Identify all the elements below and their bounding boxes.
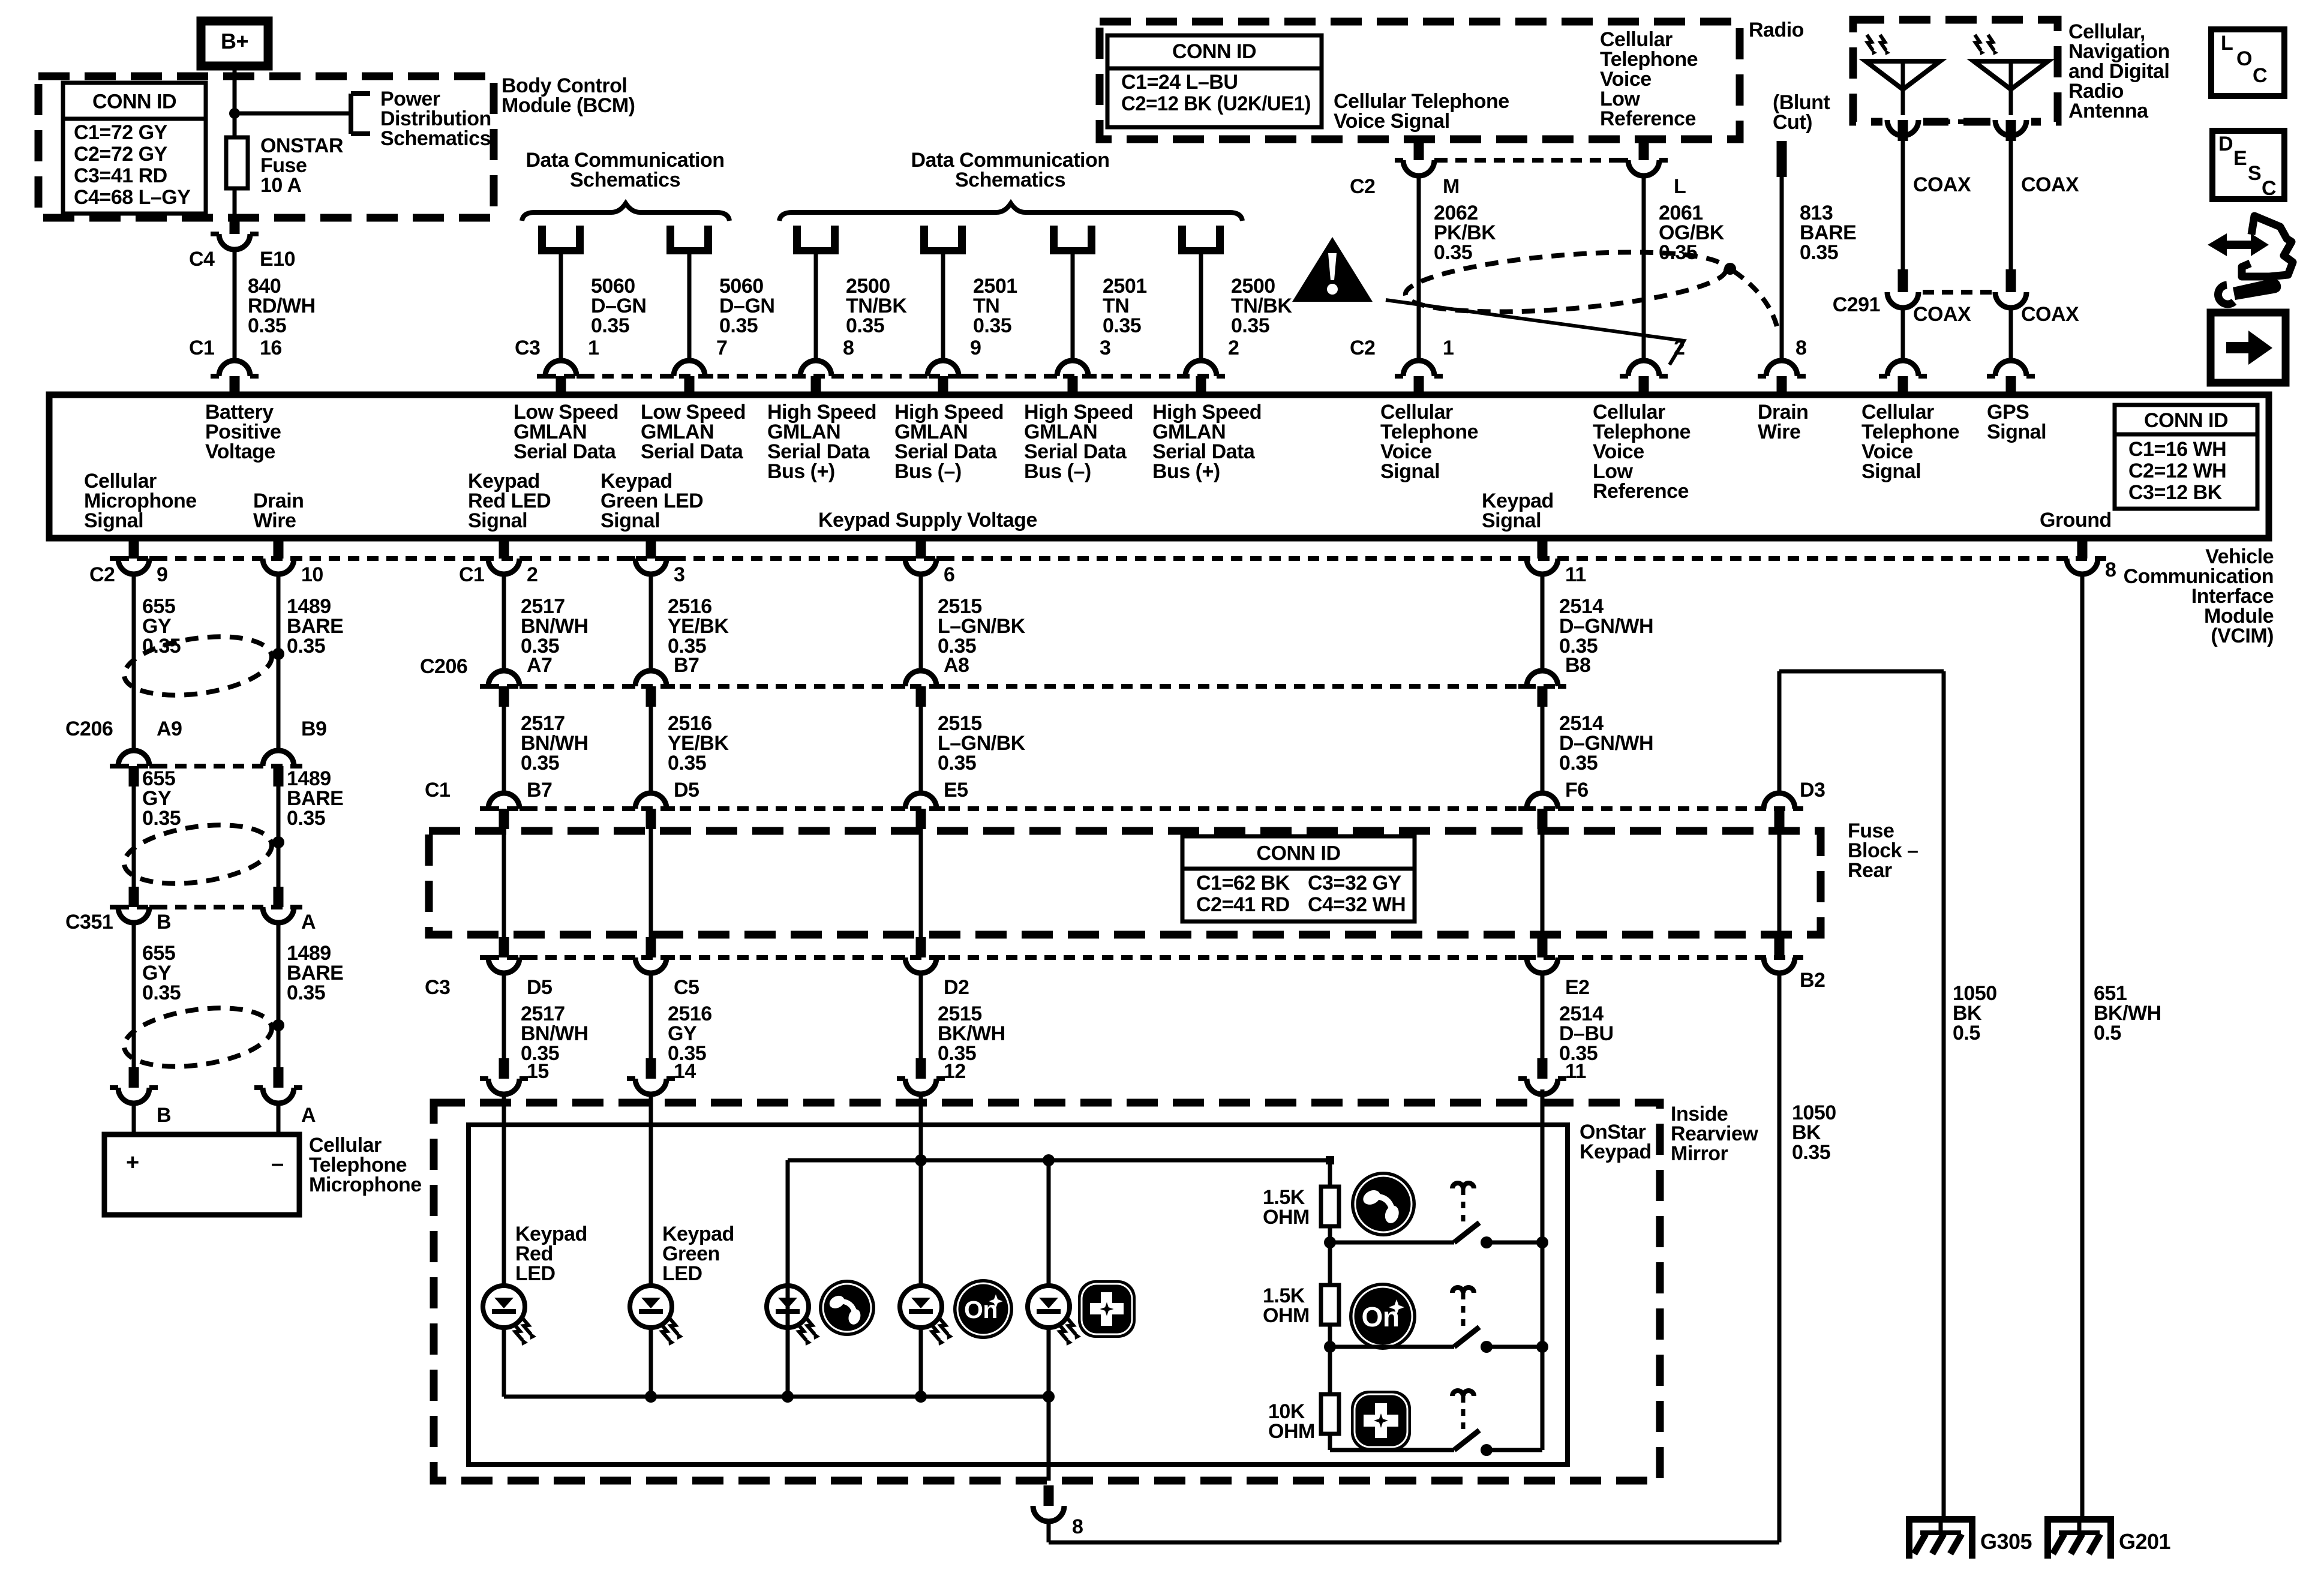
wire segment to keypad [1541, 973, 1545, 1058]
svg-text:A7: A7 [527, 654, 552, 677]
LED wires lower segments [502, 1328, 506, 1397]
svg-text:E5: E5 [944, 779, 968, 801]
switch row at y2245 [1330, 1345, 1454, 1349]
svg-text:B7: B7 [674, 654, 699, 677]
VCIM bottom pin 3 [646, 538, 656, 559]
svg-text:A: A [301, 911, 316, 933]
svg-text:C2: C2 [89, 563, 115, 586]
ground G305 [1939, 1516, 1943, 1533]
svg-text:Rear: Rear [1848, 859, 1892, 882]
svg-text:14: 14 [674, 1060, 696, 1083]
CONN ID table VCIM [2115, 405, 2257, 509]
onstar key icon [953, 1279, 1013, 1339]
svg-text:D5: D5 [674, 779, 699, 801]
svg-text:L: L [2221, 32, 2233, 55]
phone key icon [819, 1280, 875, 1336]
svg-text:10 A: 10 A [260, 174, 302, 197]
VCIM bottom pin 11 [1538, 538, 1548, 559]
svg-text:E2: E2 [1565, 976, 1590, 999]
svg-text:C1=62 BK: C1=62 BK [1196, 872, 1290, 894]
wire B+ to junction [233, 66, 237, 115]
svg-text:(VCIM): (VCIM) [2211, 625, 2274, 647]
svg-text:6: 6 [944, 563, 954, 586]
CONN ID table BCM [63, 83, 206, 214]
svg-text:C2=12 BK (U2K/UE1): C2=12 BK (U2K/UE1) [1121, 92, 1311, 115]
svg-text:COAX: COAX [1913, 173, 1971, 196]
svg-text:C1: C1 [189, 337, 214, 359]
data wire pin 8 [793, 226, 801, 254]
svg-text:0.35: 0.35 [973, 314, 1011, 337]
phone key icon large [1351, 1172, 1416, 1236]
CONN ID table radio [1107, 35, 1322, 127]
wire junction to power distribution bracket [235, 112, 351, 116]
svg-text:Schematics: Schematics [380, 127, 491, 150]
ground return wire to B2 column [1049, 1541, 1779, 1545]
diagnostic wrench icon [2242, 216, 2293, 277]
svg-text:CONN ID: CONN ID [1256, 842, 1340, 865]
svg-text:11: 11 [1565, 1060, 1586, 1083]
data wire pin 7 [666, 226, 674, 254]
svg-text:COAX: COAX [2021, 173, 2079, 196]
svg-text:D2: D2 [944, 976, 969, 999]
svg-text:8: 8 [2105, 559, 2116, 581]
svg-text:B: B [157, 911, 171, 933]
svg-text:Reference: Reference [1600, 107, 1696, 130]
antenna lead connector [1990, 115, 2031, 128]
svg-text:8: 8 [1795, 337, 1806, 359]
keypad circuit wire x1535 upper segment [919, 574, 923, 671]
wire inside fuse block [919, 829, 923, 937]
svg-text:COAX: COAX [1913, 303, 1971, 326]
svg-text:8: 8 [843, 337, 854, 359]
warning triangle [1292, 237, 1373, 302]
connector C3 pin D2 fuse block bottom [916, 937, 926, 957]
svg-text:Microphone: Microphone [309, 1173, 422, 1196]
svg-text:B7: B7 [527, 779, 552, 801]
svg-text:G305: G305 [1980, 1529, 2032, 1554]
svg-text:LED: LED [662, 1262, 702, 1285]
keypad circuit wire x840 upper segment [502, 574, 506, 671]
switch row at y2417 [1330, 1448, 1454, 1452]
connector C291 gps side [2006, 269, 2016, 292]
B+ battery feed symbol [201, 21, 268, 66]
svg-text:2: 2 [1228, 337, 1239, 359]
svg-text:C1: C1 [459, 563, 484, 586]
onstar keypad solid box [469, 1125, 1568, 1464]
resistor R1 1.5K [1321, 1187, 1339, 1226]
svg-text:Signal: Signal [84, 509, 143, 532]
svg-text:C351: C351 [65, 911, 113, 933]
svg-text:15: 15 [527, 1060, 549, 1083]
dashed connector line C3 row [545, 374, 1218, 379]
svg-text:0.5: 0.5 [1953, 1022, 1980, 1044]
svg-text:0.35: 0.35 [591, 314, 629, 337]
wire to G305 upper run [1779, 670, 1944, 674]
svg-text:B2: B2 [1800, 969, 1825, 992]
svg-text:S: S [2248, 162, 2261, 185]
VCIM bottom pin 10 [274, 538, 284, 559]
svg-text:Antenna: Antenna [2068, 100, 2149, 122]
LOC box icon [2211, 29, 2284, 96]
svg-text:8: 8 [1072, 1515, 1083, 1538]
svg-text:O: O [2236, 47, 2252, 70]
svg-text:C291: C291 [1833, 293, 1880, 316]
wire 655 GY segment 3 [132, 923, 136, 1067]
wire segment to fuse block [502, 707, 506, 793]
ground G201 [2077, 1516, 2082, 1533]
svg-text:CONN ID: CONN ID [92, 91, 176, 113]
VCIM bottom pin 8 [2077, 538, 2088, 559]
shield ellipse 2 [121, 816, 275, 892]
svg-text:0.35: 0.35 [1559, 752, 1598, 775]
wire segment to fuse block [1541, 707, 1545, 793]
svg-text:L: L [1674, 175, 1686, 198]
svg-text:E10: E10 [260, 248, 295, 271]
BCM dashed box [38, 76, 494, 218]
svg-text:OHM: OHM [1263, 1304, 1310, 1327]
svg-text:C1=24 L–BU: C1=24 L–BU [1121, 71, 1238, 94]
VCIM bottom pin 6 [916, 538, 926, 559]
svg-text:A: A [301, 1104, 316, 1127]
wire 840 RD/WH [233, 250, 237, 361]
svg-text:C206: C206 [65, 718, 113, 740]
phone LED symbol [767, 1286, 809, 1328]
antenna dashed box [1853, 20, 2058, 122]
svg-text:C206: C206 [420, 655, 467, 678]
svg-text:CONN ID: CONN ID [2144, 409, 2228, 432]
svg-text:D3: D3 [1800, 779, 1825, 801]
leader line [1386, 300, 1684, 365]
microphone connector pins B A [129, 1067, 139, 1088]
CONN ID table fuse block [1182, 836, 1415, 921]
svg-text:Serial Data: Serial Data [514, 440, 617, 463]
svg-text:Signal: Signal [468, 509, 527, 532]
VCIM module box [49, 395, 2269, 538]
svg-text:C1=72 GY: C1=72 GY [74, 121, 168, 144]
svg-text:Bus (–): Bus (–) [1024, 460, 1091, 483]
svg-text:9: 9 [157, 563, 167, 586]
onstar LED symbol [900, 1286, 942, 1328]
LED cathode bus [504, 1395, 1049, 1399]
svg-text:Radio: Radio [1749, 19, 1804, 41]
connector C3 pin D5 fuse block bottom [499, 937, 509, 957]
keypad circuit wire x1085 upper segment [649, 574, 653, 671]
svg-text:D: D [2218, 133, 2233, 155]
radio voice low reference wire 2061 OG/BK [1639, 139, 1649, 160]
coax wire [1901, 137, 1905, 269]
wire segment to keypad [502, 973, 506, 1058]
svg-text:0.35: 0.35 [1800, 241, 1838, 264]
connector C291 [1898, 269, 1908, 292]
wire 1489 BARE segment 1 [277, 574, 281, 751]
cellular antenna symbol [1866, 61, 1940, 89]
svg-text:0.35: 0.35 [248, 314, 286, 337]
connector C4 pin E10 of BCM [230, 218, 240, 234]
radio voice signal wire 2062 PK/BK [1414, 139, 1424, 160]
svg-text:0.35: 0.35 [1434, 241, 1472, 264]
svg-text:7: 7 [716, 337, 727, 359]
svg-text:C1=16 WH: C1=16 WH [2128, 438, 2226, 461]
wire 1489 BARE segment 2 [277, 786, 281, 887]
svg-text:0.35: 0.35 [287, 981, 325, 1004]
svg-text:Keypad Supply Voltage: Keypad Supply Voltage [818, 509, 1037, 532]
svg-text:Voltage: Voltage [205, 440, 275, 463]
shield ellipse 1 [121, 628, 275, 704]
svg-text:0.35: 0.35 [1792, 1141, 1830, 1164]
svg-text:0.5: 0.5 [2094, 1022, 2121, 1044]
data communication schematics brace right [779, 203, 1242, 221]
svg-text:B9: B9 [301, 718, 326, 740]
svg-text:16: 16 [260, 337, 282, 359]
svg-text:0.35: 0.35 [719, 314, 758, 337]
svg-text:Bus (+): Bus (+) [1152, 460, 1220, 483]
svg-text:C2=72 GY: C2=72 GY [74, 143, 168, 166]
svg-text:C3: C3 [425, 976, 450, 999]
svg-text:Signal: Signal [1482, 509, 1541, 532]
svg-text:Signal: Signal [600, 509, 660, 532]
connector C3 pin C5 fuse block bottom [646, 937, 656, 957]
svg-text:Signal: Signal [1380, 460, 1440, 483]
svg-text:0.35: 0.35 [287, 635, 325, 658]
svg-text:0.35: 0.35 [521, 752, 559, 775]
svg-text:B8: B8 [1565, 654, 1590, 677]
emergency LED symbol [1028, 1286, 1070, 1328]
svg-text:C3=12 BK: C3=12 BK [2128, 481, 2223, 504]
keypad signal vertical [1541, 1089, 1545, 1450]
Radio dashed box [1100, 22, 1740, 139]
svg-text:3: 3 [1100, 337, 1110, 359]
svg-text:Schematics: Schematics [570, 169, 680, 191]
svg-text:0.35: 0.35 [142, 981, 181, 1004]
svg-text:1: 1 [588, 337, 599, 359]
fuse ONSTAR 10A [233, 113, 237, 137]
resistor R2 1.5K [1321, 1285, 1339, 1325]
dashed connector line radio C2 row [1436, 158, 1627, 163]
twisted pair shield ellipse radio wires [1403, 242, 1728, 322]
svg-text:A9: A9 [157, 718, 182, 740]
svg-text:LED: LED [515, 1262, 556, 1285]
svg-text:Serial Data: Serial Data [641, 440, 744, 463]
coax wire [2009, 137, 2013, 269]
data wire pin 1 [538, 226, 546, 254]
svg-text:C3: C3 [515, 337, 540, 359]
svg-text:C4=68 L–GY: C4=68 L–GY [74, 186, 191, 209]
onstar key icon large [1349, 1283, 1416, 1350]
svg-text:0.35: 0.35 [1103, 314, 1141, 337]
junction node [229, 108, 240, 119]
VCIM bottom pin 2 [499, 538, 509, 559]
svg-text:Mirror: Mirror [1671, 1142, 1728, 1165]
C291 dashed line and label [1923, 290, 1992, 295]
svg-text:Signal: Signal [1861, 460, 1921, 483]
svg-text:0.35: 0.35 [668, 752, 706, 775]
power distribution schematics bracket [349, 94, 353, 134]
keypad circuit wire x2571 upper segment [1541, 574, 1545, 671]
wire 1050 BK 0.35 from B2 down [1777, 973, 1782, 1542]
svg-text:Cut): Cut) [1773, 111, 1812, 134]
svg-text:OHM: OHM [1268, 1420, 1315, 1443]
dashed line C3 row [488, 955, 1795, 960]
svg-text:OHM: OHM [1263, 1206, 1310, 1229]
svg-text:2: 2 [527, 563, 538, 586]
data wire pin 3 [1050, 226, 1058, 254]
svg-text:0.35: 0.35 [1231, 314, 1269, 337]
keypad red LED symbol [483, 1286, 525, 1328]
svg-text:F6: F6 [1565, 779, 1589, 801]
svg-text:Wire: Wire [253, 509, 296, 532]
data wire pin 2 [1178, 226, 1186, 254]
GPS antenna symbol [1974, 61, 2048, 89]
data wire pin 9 [920, 226, 928, 254]
svg-text:–: – [271, 1151, 284, 1176]
dashed connector line antenna row [1920, 119, 1994, 124]
svg-text:0.35: 0.35 [287, 807, 325, 830]
svg-text:C5: C5 [674, 976, 699, 999]
wire segment to keypad [649, 973, 653, 1058]
svg-text:G201: G201 [2119, 1529, 2171, 1554]
ground wire 651 BK/WH from VCIM [2080, 574, 2085, 1518]
svg-text:11: 11 [1565, 563, 1586, 586]
svg-text:E: E [2233, 147, 2247, 170]
svg-text:C: C [2253, 64, 2267, 87]
svg-text:Keypad: Keypad [1580, 1140, 1652, 1163]
dashed line C206 middle row [488, 684, 1559, 689]
data communication schematics brace left [522, 203, 729, 221]
switch row at y2071 [1330, 1241, 1454, 1245]
dashed line C1 row [488, 806, 1795, 811]
svg-text:A8: A8 [944, 654, 969, 677]
wire segment to fuse block [919, 707, 923, 793]
shield ellipse 3 [121, 999, 275, 1075]
svg-text:0.35: 0.35 [142, 807, 181, 830]
svg-text:COAX: COAX [2021, 303, 2079, 326]
svg-text:C4: C4 [189, 248, 215, 271]
svg-text:1: 1 [1443, 337, 1454, 359]
svg-text:C2=41 RD: C2=41 RD [1196, 893, 1290, 916]
keypad ground pin 8 [1047, 1397, 1051, 1481]
svg-text:9: 9 [970, 337, 981, 359]
svg-text:C4=32 WH: C4=32 WH [1308, 893, 1406, 916]
svg-text:10: 10 [301, 563, 323, 586]
svg-text:C1: C1 [425, 779, 450, 801]
wire inside fuse block [649, 829, 653, 937]
svg-text:Wire: Wire [1758, 421, 1800, 443]
emergency key icon [1078, 1280, 1136, 1338]
resistor chain feed [1328, 1160, 1332, 1187]
DESC box icon [2212, 131, 2284, 199]
keypad supply top rail [788, 1158, 1329, 1163]
antenna lead connector [1882, 115, 1923, 128]
svg-text:B: B [157, 1104, 171, 1127]
svg-text:Module (BCM): Module (BCM) [502, 94, 635, 117]
svg-text:D5: D5 [527, 976, 552, 999]
wire 1489 BARE segment 3 [277, 923, 281, 1067]
svg-text:C: C [2262, 177, 2276, 200]
VCIM bottom connector dashed line [118, 556, 2098, 561]
svg-text:Bus (–): Bus (–) [894, 460, 962, 483]
VCIM bottom pin 9 [129, 538, 139, 559]
keypad green LED symbol [630, 1286, 672, 1328]
svg-text:C2=12 WH: C2=12 WH [2128, 460, 2226, 482]
resistor R3 10K [1321, 1394, 1339, 1434]
wire inside fuse block [502, 829, 506, 937]
wire segment to keypad [919, 973, 923, 1058]
arrow box icon [2211, 313, 2286, 383]
svg-text:+: + [126, 1150, 139, 1175]
emergency key icon large [1351, 1391, 1411, 1451]
svg-text:B+: B+ [221, 29, 248, 53]
fuse block rear dashed box [429, 831, 1821, 935]
svg-text:Schematics: Schematics [955, 169, 1065, 191]
wire 655 GY segment 2 [132, 786, 136, 887]
connector C3 pin E2 fuse block bottom [1538, 937, 1548, 957]
svg-text:C2: C2 [1350, 175, 1375, 198]
wire 655 GY segment 1 [132, 574, 136, 751]
svg-text:Voice Signal: Voice Signal [1334, 110, 1450, 133]
svg-text:CONN ID: CONN ID [1172, 40, 1256, 63]
svg-text:0.35: 0.35 [938, 752, 976, 775]
svg-text:Ground: Ground [2040, 509, 2112, 532]
svg-text:0.35: 0.35 [846, 314, 884, 337]
inside rearview mirror dashed box [434, 1103, 1660, 1481]
svg-text:C2: C2 [1350, 337, 1375, 359]
svg-text:Reference: Reference [1593, 480, 1689, 503]
svg-text:M: M [1443, 175, 1460, 198]
wire inside fuse block [1541, 829, 1545, 937]
svg-text:Signal: Signal [1987, 421, 2046, 443]
svg-text:12: 12 [944, 1060, 966, 1083]
cellular telephone microphone box [104, 1134, 299, 1215]
wire segment to fuse block [649, 707, 653, 793]
svg-text:3: 3 [674, 563, 684, 586]
svg-text:Bus (+): Bus (+) [767, 460, 835, 483]
svg-text:C3=41 RD: C3=41 RD [74, 164, 167, 187]
svg-text:C3=32 GY: C3=32 GY [1308, 872, 1402, 894]
